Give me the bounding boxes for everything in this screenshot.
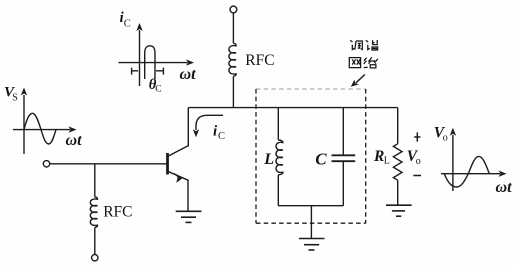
iC curved arrow head	[193, 129, 199, 137]
transistor Q emitter diagonal	[168, 171, 189, 180]
wire: RFC1 bottom lead	[94, 227, 96, 254]
iC pulse	[145, 46, 155, 79]
input terminal circle	[43, 161, 49, 167]
Vs plot vertical axis	[23, 95, 25, 154]
Vo plot vertical axis	[452, 135, 454, 191]
tuned network dashed box right edge	[365, 89, 367, 223]
inductor L coil	[276, 140, 283, 175]
iC theta ticks right	[156, 68, 163, 75]
char luo	[364, 57, 378, 68]
wire: RFC2 to top rail	[232, 76, 234, 107]
tuned network dashed box bottom edge	[256, 222, 366, 224]
svg-text:L: L	[263, 151, 274, 168]
Vo plot horizontal axis arrowhead	[499, 171, 507, 177]
resistor RL zigzag	[393, 144, 402, 180]
inductor RFC1 coil	[90, 197, 97, 227]
wire: top rail	[188, 107, 397, 109]
label tuned-network (Chinese)	[349, 40, 378, 68]
svg-text:RFC: RFC	[245, 52, 274, 69]
wire: supply to RFC2	[232, 13, 234, 43]
ground (emitter)	[176, 211, 202, 222]
svg-text:C: C	[155, 84, 161, 94]
wire: tank bottom rail	[278, 205, 343, 207]
Vs sine wave	[24, 113, 56, 144]
wire: RFC1 top lead	[94, 164, 96, 197]
char diao	[350, 40, 362, 50]
svg-text:o: o	[416, 156, 421, 167]
Vo plot horizontal axis	[441, 173, 500, 175]
svg-text:C: C	[124, 19, 131, 30]
wire: L top lead	[277, 108, 279, 140]
iC curved arrow	[196, 115, 223, 130]
inductor RFC2 coil	[229, 43, 236, 76]
tuned network dashed box left edge	[255, 89, 257, 223]
tuned network dashed box top edge	[256, 88, 366, 90]
label arrow to tuned network	[356, 75, 365, 83]
svg-text:RFC: RFC	[103, 204, 132, 221]
Vs plot horizontal axis	[13, 129, 70, 131]
char wang	[349, 58, 360, 68]
svg-text:S: S	[12, 93, 18, 104]
wire: collector up to top rail	[187, 108, 189, 147]
ground (tank)	[299, 239, 325, 251]
iC theta ticks left	[132, 68, 139, 75]
svg-text:o: o	[443, 133, 448, 144]
plus sign	[414, 132, 420, 141]
wire: C bottom lead	[342, 161, 344, 206]
wire: emitter down to ground	[187, 180, 189, 212]
iC plot vertical axis	[139, 30, 141, 86]
supply terminal circle	[230, 6, 237, 13]
wire: RL top lead	[397, 108, 399, 144]
ground (RL)	[386, 205, 412, 216]
transistor Q emitter arrowhead	[174, 173, 183, 183]
capacitor C plates	[332, 155, 356, 161]
svg-text:C: C	[315, 150, 327, 169]
iC plot horizontal axis arrowhead	[186, 59, 194, 65]
svg-text:L: L	[384, 156, 390, 167]
wire: C top lead	[342, 108, 344, 156]
wire: tank ground stub	[310, 206, 312, 239]
bottom terminal circle	[92, 255, 98, 261]
transistor Q base bar	[166, 153, 169, 175]
iC plot horizontal axis	[119, 62, 188, 64]
Vs plot vertical axis arrowhead	[21, 88, 27, 96]
wire: RL bottom lead	[397, 180, 399, 205]
wire: L bottom lead	[277, 175, 279, 206]
svg-text:ωt: ωt	[496, 179, 513, 196]
Vo plot vertical axis arrowhead	[450, 128, 456, 136]
svg-text:ωt: ωt	[180, 66, 197, 83]
svg-text:R: R	[373, 148, 384, 165]
wire: input to base	[50, 163, 167, 165]
Vo sine wave	[444, 156, 489, 187]
label arrowhead	[351, 80, 359, 87]
Vs plot horizontal axis arrowhead	[69, 126, 77, 132]
transistor Q collector diagonal	[168, 146, 189, 157]
svg-text:C: C	[218, 131, 225, 142]
svg-text:ωt: ωt	[66, 132, 83, 149]
iC plot vertical axis arrowhead	[136, 23, 142, 31]
minus sign	[413, 175, 421, 177]
char xie	[366, 40, 378, 50]
